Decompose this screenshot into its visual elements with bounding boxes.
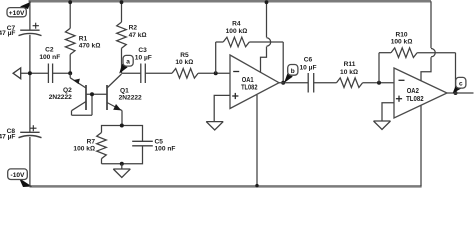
ground (OA1 +) [206,122,223,130]
wire: input to C2 [21,72,49,74]
wire: C3 to R5 [145,72,172,74]
node: R1/C2/Q2 dot [68,71,72,75]
svg-text:10 µF: 10 µF [300,64,317,71]
transistor Q2 2N2222 [70,73,92,115]
wire: R11 to OA2 minus [363,82,394,84]
node: R10 right dot [454,91,458,95]
svg-text:100 kΩ: 100 kΩ [226,28,248,35]
transistor Q1 2N2222 [107,74,122,126]
wire: OA2 plus to ground [382,103,394,121]
svg-text:-10V: -10V [11,172,26,179]
node: loop bottom dot [120,162,124,166]
svg-text:C6: C6 [304,56,313,63]
svg-text:100 kΩ: 100 kΩ [391,39,413,46]
wire: C6 to R11 [314,82,337,84]
wire: C2 to node [53,72,71,74]
svg-text:47 µF: 47 µF [0,30,15,37]
svg-text:C2: C2 [45,47,54,54]
wire: OA2 output [447,92,474,94]
ground (OA2 +) [374,121,391,129]
capacitor C2 100nF [48,64,52,84]
node: R4 left dot [214,71,218,75]
svg-text:R7: R7 [87,139,96,146]
+10V flag [7,2,31,17]
svg-text:100 nF: 100 nF [155,146,176,153]
svg-text:R10: R10 [395,31,407,38]
node a flag [119,55,133,73]
svg-text:2N2222: 2N2222 [49,94,72,101]
svg-text:R11: R11 [344,61,356,68]
wire: OA1 output to C6 [279,82,308,84]
wire: C7 bottom to input node [29,35,31,74]
wire: R7/C5 top [102,126,143,142]
svg-text:470 kΩ: 470 kΩ [79,43,101,50]
node: R10 left dot [377,81,381,85]
svg-text:100 kΩ: 100 kΩ [73,146,95,153]
C7 plus sign [33,23,39,29]
wire: C8 bottom to -10V rail [29,137,31,186]
OA1 minus pin [233,71,239,73]
svg-text:R2: R2 [129,25,138,32]
capacitor C7 (electrolytic 47uF) [19,30,42,35]
-10V flag [8,169,32,187]
svg-text:+10V: +10V [9,10,25,17]
wire: left vertical from +10V rail to C7 [29,1,31,30]
node: base junction dot [90,92,94,96]
OA1 V+ supply wire with hop [261,1,271,72]
OA2 minus pin [399,79,405,81]
svg-text:2N2222: 2N2222 [119,94,142,101]
node: rail-R1 dot [68,0,72,4]
capacitor C3 10uF [141,64,146,84]
svg-text:c: c [459,81,463,88]
-10V supply rail [30,185,422,188]
node c flag [453,77,466,93]
OA2 plus pin [396,96,402,102]
resistor R2 47k [117,1,127,73]
resistor R10 100k feedback [379,48,456,93]
svg-text:47 µF: 47 µF [0,134,15,141]
node: emitter-loop dot [120,124,124,128]
resistor R5 10k [172,69,198,79]
wire: R7/C5 bottom [102,146,143,164]
svg-text:TL082: TL082 [406,94,424,103]
wire: OA1 plus to ground [214,95,230,121]
node: rail-V+ dot [265,0,269,4]
resistor R11 10k [337,78,363,88]
resistor R7 100k [97,133,107,164]
node: rail-R2 dot [120,0,124,4]
wire: node a to C3 [122,72,141,74]
svg-text:10 kΩ: 10 kΩ [340,69,358,76]
wire: to ground [121,164,123,169]
svg-text:C3: C3 [138,47,147,54]
C8 plus sign [30,125,36,131]
wire: common base wire [86,93,107,95]
input port connector [13,68,21,79]
svg-text:a: a [126,59,130,66]
resistor R4 100k feedback [216,37,284,82]
+10V supply rail [29,0,432,3]
OA1 plus pin [232,93,238,99]
svg-text:47 kΩ: 47 kΩ [129,32,147,39]
OA2 V- supply wire [420,105,422,186]
svg-text:TL082: TL082 [241,83,257,92]
OA2 V+ supply wire with hop [421,1,435,80]
wire: input node down to C8 [29,73,31,132]
op-amp OA1 TL082 [230,55,279,109]
svg-text:C5: C5 [155,139,164,146]
svg-text:100 nF: 100 nF [39,54,60,61]
svg-text:10 µF: 10 µF [135,55,152,62]
svg-text:b: b [291,68,295,75]
svg-text:10 kΩ: 10 kΩ [175,59,193,66]
ground (R7/C5) [113,169,130,177]
capacitor C5 100nF [132,141,153,146]
node b flag [284,65,298,84]
op-amp OA2 TL082 [394,68,447,118]
resistor R1 470k [65,1,75,73]
svg-text:R4: R4 [232,20,241,27]
svg-text:R1: R1 [79,35,88,42]
node: input junction dot [28,71,32,75]
OA1 V- supply wire [256,95,258,187]
node: R4 right dot [281,81,285,85]
capacitor C8 (electrolytic 47uF) [19,132,42,137]
capacitor C6 10uF [308,73,314,93]
wire: R5 to OA1 minus [198,72,230,74]
